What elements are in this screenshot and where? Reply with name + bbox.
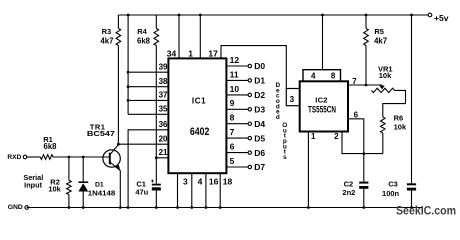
node D1 gnd junction — [82, 206, 85, 209]
GND terminal — [25, 206, 29, 210]
resistor R3 4k7 — [117, 15, 119, 28]
node timing junction — [362, 152, 365, 155]
+5V terminal — [428, 13, 432, 17]
svg-text:10k: 10k — [48, 185, 61, 194]
node rail junction C3 — [410, 14, 413, 17]
svg-text:10k: 10k — [394, 122, 407, 131]
svg-text:3: 3 — [183, 176, 188, 186]
node C3 gnd junction — [410, 206, 413, 209]
svg-text:IC1: IC1 — [192, 96, 206, 105]
svg-text:2: 2 — [334, 132, 339, 141]
node pin18 gnd junction — [219, 206, 222, 209]
svg-text:4: 4 — [311, 71, 316, 80]
node D4 terminal — [248, 122, 251, 125]
svg-text:C3: C3 — [388, 179, 398, 188]
svg-text:D3: D3 — [254, 105, 265, 115]
svg-text:SeekIC.com: SeekIC.com — [396, 203, 456, 217]
wire R5 to pin7 — [365, 46, 367, 86]
resistor R2 10k — [68, 157, 70, 180]
svg-text:2n2: 2n2 — [342, 188, 355, 197]
node IC2 pin1 gnd junction — [307, 206, 310, 209]
svg-text:37: 37 — [159, 91, 168, 100]
wire pin 35 — [128, 113, 168, 115]
node rail junction pin34 — [178, 14, 181, 17]
node emitter gnd junction — [119, 206, 122, 209]
potentiometer VR1 10k — [381, 85, 383, 87]
node R2 gnd junction — [68, 206, 71, 209]
wire pin 6 output D6 — [226, 152, 248, 154]
wire pin 9 output D3 — [226, 108, 248, 110]
wire +5V config vertical — [127, 15, 129, 114]
wire IC2 pin2 leg — [342, 132, 383, 154]
svg-text:36: 36 — [159, 120, 168, 129]
svg-text:5: 5 — [230, 156, 235, 166]
resistor R5 4k7 — [365, 15, 367, 28]
node rail junction R5 — [365, 14, 368, 17]
svg-text:8: 8 — [331, 71, 336, 80]
svg-text:21: 21 — [159, 148, 168, 157]
svg-text:R3: R3 — [102, 27, 112, 36]
node collector junction — [117, 143, 120, 146]
wire pin 36 to gnd — [128, 130, 168, 208]
svg-text:D5: D5 — [254, 133, 265, 143]
wire pin 38 — [128, 86, 168, 88]
wire RXD to R1 — [27, 156, 41, 158]
svg-text:3: 3 — [290, 95, 295, 104]
node C2 gnd junction — [362, 206, 365, 209]
svg-text:R6: R6 — [394, 113, 404, 122]
node C1 gnd junction — [155, 206, 158, 209]
svg-text:18: 18 — [223, 176, 233, 186]
wire pin 1 — [199, 15, 201, 58]
wire pin 5 output D7 — [226, 166, 248, 168]
node D2 terminal — [248, 93, 251, 96]
resistor R6 10k — [381, 117, 386, 133]
svg-text:1: 1 — [311, 132, 316, 141]
svg-text:17: 17 — [208, 48, 218, 58]
diode D1 1N4148 — [82, 157, 84, 182]
svg-text:6k8: 6k8 — [137, 36, 151, 45]
wire +5V top rail — [118, 14, 428, 16]
svg-text:6k8: 6k8 — [43, 142, 57, 151]
svg-text:s: s — [283, 154, 287, 161]
svg-text:11: 11 — [230, 69, 239, 79]
node D6 terminal — [248, 151, 251, 154]
wire VR1 end loop — [383, 90, 406, 117]
wire IC2 pin6 leg — [348, 119, 364, 154]
node RXD terminal — [23, 155, 27, 159]
capacitor C1 47u — [155, 158, 157, 184]
wire collector to pin20 — [118, 143, 168, 145]
node D3 terminal — [248, 108, 251, 111]
wire pin 10 output D2 — [226, 94, 248, 96]
wire R3 to collector — [117, 46, 119, 145]
wire pin 34 — [178, 15, 180, 58]
svg-text:D2: D2 — [254, 90, 265, 100]
wire IC2 supply — [322, 15, 324, 70]
capacitor C3 100n — [411, 15, 413, 183]
svg-text:9: 9 — [230, 98, 235, 108]
svg-text:39: 39 — [159, 62, 168, 71]
node pin36 gnd junction — [127, 206, 130, 209]
svg-text:38: 38 — [159, 77, 168, 86]
svg-text:4k7: 4k7 — [100, 36, 113, 45]
wire pin 4 to gnd — [191, 173, 193, 207]
svg-text:1: 1 — [188, 48, 193, 58]
svg-text:D0: D0 — [254, 61, 265, 71]
svg-text:D6: D6 — [254, 148, 265, 158]
resistor R4 6k8 — [155, 15, 157, 28]
svg-text:D7: D7 — [254, 162, 265, 172]
svg-text:TS555CN: TS555CN — [308, 104, 336, 114]
svg-text:RXD: RXD — [7, 154, 21, 161]
svg-text:4: 4 — [198, 176, 203, 186]
svg-text:10k: 10k — [379, 71, 392, 80]
svg-text:D4: D4 — [254, 119, 265, 129]
transistor TR1 BC547 — [103, 150, 120, 167]
pin 3 box — [286, 89, 299, 106]
wire R1 to base — [53, 156, 110, 158]
svg-text:35: 35 — [159, 104, 168, 113]
svg-text:7: 7 — [230, 127, 235, 137]
wire emitter to gnd — [119, 170, 121, 207]
wire GND bottom rail — [27, 207, 423, 209]
svg-text:6: 6 — [230, 142, 235, 152]
svg-text:R4: R4 — [137, 27, 147, 36]
svg-text:R5: R5 — [374, 27, 384, 36]
svg-text:+5v: +5v — [434, 13, 449, 23]
node D0 terminal — [248, 64, 251, 67]
op-amp U2 IC2 TS555CN box — [300, 81, 348, 131]
svg-text:IC2: IC2 — [315, 95, 328, 104]
node rail junction IC2 supply — [321, 14, 324, 17]
pin 4 8 box — [303, 70, 341, 82]
svg-text:10: 10 — [230, 84, 240, 94]
wire IC2 pin7 — [348, 84, 382, 86]
wire R4 to MR node — [155, 46, 157, 158]
svg-text:100n: 100n — [382, 189, 400, 198]
wire IC2 pin1 to gnd — [307, 132, 309, 208]
node D5 terminal — [248, 136, 251, 139]
node D7 terminal — [248, 165, 251, 168]
wire pin 7 output D5 — [226, 137, 248, 139]
wire pin 17 clock — [221, 46, 286, 89]
node junction pin37 — [127, 99, 130, 102]
wire pin 11 output D1 — [226, 79, 248, 81]
capacitor C2 2n2 — [363, 154, 365, 182]
svg-text:GND: GND — [8, 204, 23, 211]
node pin4 gnd junction — [190, 206, 193, 209]
svg-text:d: d — [276, 114, 280, 121]
svg-text:8: 8 — [230, 113, 235, 123]
node junction R2 tap — [68, 156, 71, 159]
node D1 terminal — [248, 79, 251, 82]
wire pin 3 to gnd — [177, 173, 179, 207]
wire pin 21 — [156, 157, 168, 159]
wire pin 16 to gnd — [205, 173, 207, 207]
svg-text:47u: 47u — [135, 188, 148, 197]
wire pin 39 — [128, 71, 168, 73]
node rail junction pin1 — [199, 14, 202, 17]
node MR junction — [155, 156, 158, 159]
svg-text:20: 20 — [159, 134, 168, 143]
wire pin 18 to gnd — [219, 173, 221, 207]
node pin3 gnd junction — [176, 206, 179, 209]
node pin16 gnd junction — [205, 206, 208, 209]
svg-text:D1: D1 — [254, 76, 265, 86]
wire pin 37 — [128, 99, 168, 101]
svg-text:1N4148: 1N4148 — [88, 188, 116, 197]
resistor R1 6k8 — [40, 155, 53, 160]
wire pin 8 output D4 — [226, 123, 248, 125]
wire pin 12 output D0 — [226, 65, 248, 67]
node junction pin39 — [127, 71, 130, 74]
op-amp U1 IC1 6402 box — [168, 58, 226, 173]
svg-text:34: 34 — [167, 48, 177, 58]
svg-text:6402: 6402 — [190, 126, 210, 138]
node rail junction config — [127, 14, 130, 17]
svg-text:Input: Input — [24, 181, 42, 190]
node junction D1 tap — [82, 156, 85, 159]
svg-text:16: 16 — [209, 176, 219, 186]
svg-text:BC547: BC547 — [87, 129, 115, 138]
node R5 pin7 junction — [365, 84, 368, 87]
svg-text:12: 12 — [230, 55, 240, 65]
svg-text:4k7: 4k7 — [374, 36, 387, 45]
node junction pin38 — [127, 85, 130, 88]
